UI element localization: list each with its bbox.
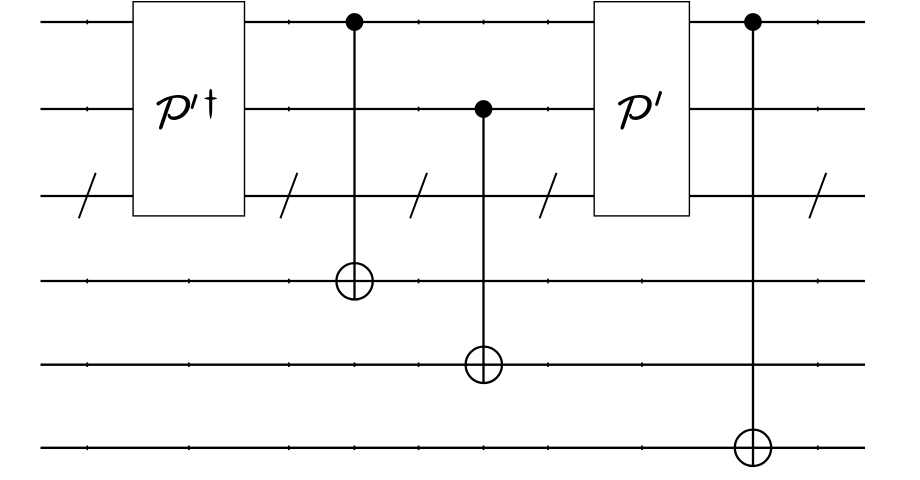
dagger stem (209, 89, 212, 120)
CNOT 1 control dot on q0 (346, 13, 364, 31)
bus slash 2 on q2 (280, 173, 297, 218)
script P glyph (618, 95, 652, 130)
CNOT 3 control dot on q0 (744, 13, 762, 31)
bus slash 5 on q2 (809, 173, 826, 218)
wire joint ticks (86, 20, 818, 450)
wire q3 (41, 280, 866, 282)
wire q1 (41, 108, 866, 110)
wire q0 (41, 21, 866, 23)
label P'dagger in U1 (157, 89, 218, 130)
wire q2 (bus) (41, 195, 866, 197)
bus slash 3 on q2 (410, 173, 427, 218)
script P glyph (157, 95, 191, 130)
CNOT 2 control dot on q1 (475, 100, 493, 118)
CNOT 2 target on q4 (466, 347, 502, 383)
wire q5 (41, 447, 866, 449)
label P-prime in U2 (618, 91, 662, 130)
CNOT 3 target on q5 (735, 430, 771, 466)
gate box U1 (P'-dagger) (133, 2, 244, 216)
CNOT 3 vertical wire (752, 22, 754, 467)
prime mark (191, 94, 198, 109)
CNOT 1 target on q3 (336, 263, 372, 299)
dagger crossbar (204, 97, 218, 100)
bus slash 1 on q2 (79, 173, 96, 218)
wire q4 (41, 364, 866, 366)
CNOT 2 vertical wire (482, 109, 484, 383)
prime mark (655, 91, 662, 106)
gate box U2 (P') (594, 2, 689, 216)
bus slash 4 on q2 (540, 173, 557, 218)
CNOT 1 vertical wire (353, 22, 355, 301)
